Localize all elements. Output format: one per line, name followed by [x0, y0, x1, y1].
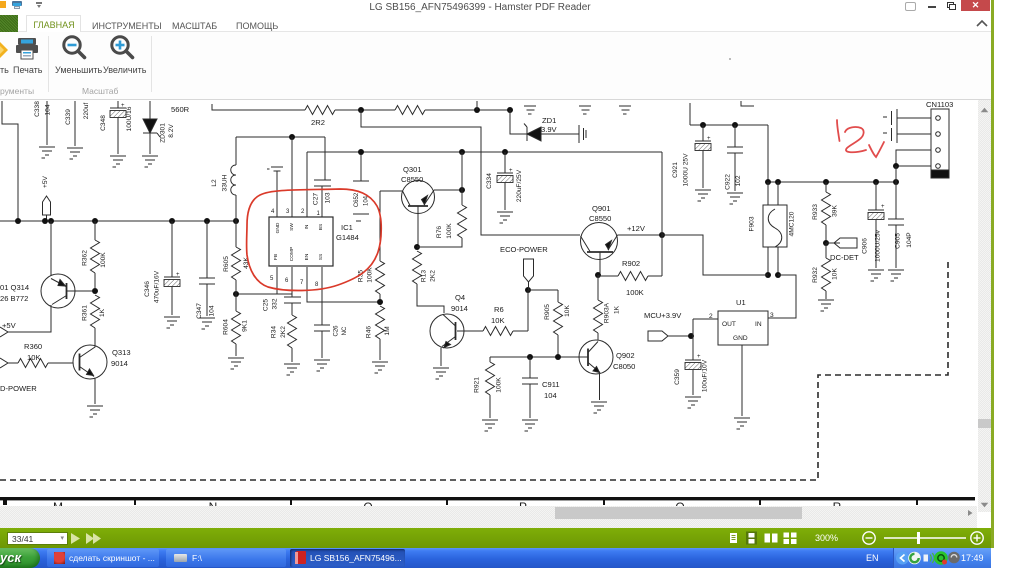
svg-text:Q4: Q4: [455, 293, 465, 302]
svg-text:26 B772: 26 B772: [0, 294, 28, 303]
svg-text:104: 104: [45, 104, 52, 115]
capacitor C338: [34, 101, 55, 158]
svg-text:10K: 10K: [27, 353, 41, 362]
svg-text:ECO-POWER: ECO-POWER: [500, 245, 548, 254]
svg-text:2: 2: [301, 209, 305, 215]
clipped cap mark a: [524, 106, 536, 114]
svg-text:R34: R34: [271, 326, 278, 338]
svg-text:R903A: R903A: [604, 302, 611, 323]
resistor R46: [366, 306, 392, 373]
wire FB to R605: [236, 293, 292, 295]
svg-text:SS: SS: [318, 254, 324, 260]
node +5V plug: [42, 175, 51, 221]
svg-text:IC1: IC1: [341, 223, 353, 232]
svg-text:GND: GND: [733, 335, 748, 342]
wire F903 to U1 IN: [768, 275, 796, 318]
svg-text:100K: 100K: [446, 223, 453, 239]
ruler line: [0, 497, 975, 505]
svg-text:NC: NC: [342, 326, 348, 335]
svg-text:R604: R604: [223, 319, 230, 335]
wire pin5 FB: [276, 267, 278, 294]
svg-text:4: 4: [271, 209, 275, 215]
svg-text:102: 102: [735, 175, 742, 186]
svg-text:8: 8: [315, 282, 319, 288]
capacitor C921: [672, 125, 711, 201]
node ZD1 tap: [507, 107, 513, 113]
wire left edge feed: [2, 101, 18, 221]
resistor R6: [483, 305, 528, 336]
svg-text:Q301: Q301: [403, 165, 422, 174]
svg-text:1M: 1M: [384, 326, 391, 335]
svg-text:104: 104: [209, 305, 216, 316]
svg-text:C906: C906: [862, 238, 869, 254]
resistor 2R2: [305, 106, 335, 128]
svg-text:ZD1: ZD1: [542, 116, 556, 125]
node F903 bottom right: [775, 272, 781, 278]
wire +12V vertical: [661, 152, 663, 276]
resistor R76: [417, 152, 467, 247]
svg-text:C347: C347: [196, 303, 203, 319]
op-amp IC1 G1484 box: [269, 217, 359, 266]
svg-text:C652: C652: [354, 192, 360, 207]
ground ZD301: [142, 156, 158, 167]
wire F903 feed: [767, 125, 769, 182]
capacitor C347: [196, 221, 216, 329]
cut-off left button fragment: [0, 40, 10, 60]
svg-text:D-POWER: D-POWER: [0, 384, 37, 393]
resistor R360: [8, 342, 73, 368]
svg-text:GND: GND: [275, 222, 281, 233]
node +12V junction: [659, 232, 665, 238]
capacitor C911: [522, 357, 560, 431]
start button: [0, 548, 40, 568]
resistor R903A: [594, 275, 621, 340]
svg-text:L2: L2: [211, 179, 218, 187]
port +5V input: [0, 321, 17, 337]
capacitor C27: [313, 137, 332, 217]
task 3 active: [290, 549, 405, 567]
svg-text:R902: R902: [622, 259, 640, 268]
resistor R34: [271, 303, 301, 375]
capacitor pin4 bypass: [267, 167, 283, 217]
svg-text:100K: 100K: [496, 377, 503, 393]
capacitor C922: [725, 125, 744, 204]
collapse chevron: [975, 18, 989, 29]
node F903 bottom left: [765, 272, 771, 278]
svg-text:9014: 9014: [111, 359, 128, 368]
inductor L2: [211, 137, 236, 221]
capacitor C348: [100, 101, 133, 167]
svg-text:9K1: 9K1: [242, 320, 249, 332]
dashed boundary: [0, 258, 948, 480]
wire main rail y152: [307, 149, 662, 155]
svg-text:G1484: G1484: [336, 233, 359, 242]
svg-text:39K: 39K: [832, 205, 839, 217]
svg-text:C8550: C8550: [401, 175, 423, 184]
connector CN1103: [926, 100, 953, 178]
svg-text:3: 3: [770, 312, 774, 319]
transistor Q901: [581, 204, 663, 273]
svg-text:+: +: [509, 168, 513, 174]
transistor Q301: [380, 165, 462, 247]
svg-text:8.2V: 8.2V: [168, 124, 175, 138]
svg-text:ZD301: ZD301: [160, 123, 167, 143]
resistor R605: [223, 221, 250, 294]
svg-text:DC-DET: DC-DET: [830, 253, 859, 262]
resistor R905: [544, 290, 571, 358]
svg-text:C338: C338: [34, 101, 41, 117]
wire +5V bus y221: [0, 218, 239, 224]
svg-text:+12V: +12V: [627, 224, 646, 233]
node Q301 emitter junction: [459, 187, 465, 193]
wire +12V to F903: [662, 235, 768, 275]
svg-text:+: +: [697, 354, 701, 360]
regulator U1: [693, 298, 774, 416]
wire top right corner: [690, 101, 754, 125]
transistor Q902: [558, 340, 635, 400]
svg-text:C25: C25: [263, 299, 270, 311]
node top rail junction: [358, 107, 364, 113]
node R605 bottom: [233, 291, 239, 297]
port LCD-POWER input: [0, 358, 37, 393]
svg-text:100U/16: 100U/16: [126, 106, 133, 131]
fuse F903: [749, 182, 796, 275]
svg-text:C27: C27: [313, 193, 320, 205]
resistor R35: [358, 191, 385, 302]
ground Q313: [87, 406, 103, 417]
svg-text:+5V: +5V: [2, 321, 17, 330]
svg-text:R933: R933: [812, 204, 819, 220]
svg-text:103: 103: [325, 192, 332, 203]
svg-text:C346: C346: [144, 281, 151, 297]
svg-text:1000U/25v: 1000U/25v: [875, 229, 882, 262]
svg-text:10K: 10K: [491, 316, 505, 325]
svg-text:IN: IN: [755, 321, 762, 328]
svg-text:6: 6: [285, 278, 289, 284]
svg-text:2K2: 2K2: [430, 270, 437, 282]
node Q301 collector junction: [414, 244, 420, 250]
svg-text:104P: 104P: [906, 232, 913, 248]
resistor R13: [413, 251, 445, 313]
svg-text:332: 332: [272, 298, 279, 309]
label +12V: [627, 224, 646, 233]
capacitor C359: [674, 319, 709, 408]
plug MCU+3.9V: [644, 311, 690, 341]
wire top rail y110: [212, 104, 510, 110]
ground Q902: [591, 402, 607, 413]
svg-text:U1: U1: [736, 298, 746, 307]
svg-text:+: +: [121, 103, 125, 109]
wire pin7 EN: [307, 267, 378, 302]
wire IC top feed y137: [236, 134, 325, 140]
svg-text:1: 1: [317, 211, 321, 217]
svg-text:CN1103: CN1103: [926, 100, 953, 109]
svg-text:2K2: 2K2: [280, 326, 287, 338]
node Q901 emitter junction: [595, 272, 601, 278]
svg-text:C8050: C8050: [613, 362, 635, 371]
wire pin3 SW: [291, 137, 293, 217]
zoom-in icon: [108, 35, 136, 61]
task 1: [47, 549, 159, 567]
svg-text:+5V: +5V: [42, 175, 49, 188]
pin numbers top: [271, 209, 321, 217]
transistor Q313: [73, 337, 131, 404]
svg-text:2R2: 2R2: [311, 118, 325, 127]
task 2: [166, 549, 286, 567]
svg-text:100uF/10V: 100uF/10V: [702, 359, 709, 392]
svg-text:+: +: [881, 204, 885, 210]
pin numbers bottom: [270, 276, 319, 288]
capacitor C25: [263, 294, 302, 311]
svg-text:220uf: 220uf: [83, 103, 90, 120]
svg-text:R76: R76: [436, 226, 443, 238]
resistor R362: [82, 221, 108, 288]
capacitor C26: [314, 267, 348, 371]
svg-text:104: 104: [544, 391, 557, 400]
ground U1: [734, 418, 750, 429]
capacitor C652: [353, 152, 370, 221]
node ECO-POWER junction: [525, 287, 531, 293]
wire base rail y357: [490, 354, 561, 360]
wire to Q901 base: [361, 110, 580, 235]
svg-text:F903: F903: [749, 216, 756, 231]
svg-text:C334: C334: [486, 173, 493, 189]
transistor Q314: [0, 221, 92, 332]
svg-text:560R: 560R: [171, 105, 190, 114]
svg-text:Q313: Q313: [112, 348, 131, 357]
svg-text:R905: R905: [544, 304, 551, 320]
wire CN pin3: [896, 150, 931, 166]
svg-text:100K: 100K: [626, 288, 644, 297]
ruler ticks: [135, 497, 917, 505]
wire rail y125: [690, 122, 768, 128]
svg-text:Q901: Q901: [592, 204, 611, 213]
resistor R932: [812, 243, 839, 311]
print icon: [15, 38, 39, 60]
svg-text:R362: R362: [82, 250, 89, 266]
svg-text:5: 5: [270, 276, 274, 282]
svg-text:R13: R13: [421, 270, 428, 282]
svg-text:9014: 9014: [451, 304, 468, 313]
svg-text:SW: SW: [289, 223, 295, 231]
capacitor C334: [486, 152, 523, 223]
resistor R902: [598, 259, 662, 297]
label 560R: [171, 105, 190, 114]
svg-text:R361: R361: [82, 305, 89, 321]
svg-text:7: 7: [300, 280, 304, 286]
ruler letters: [53, 500, 842, 514]
svg-text:R46: R46: [366, 326, 373, 338]
svg-text:R921: R921: [474, 377, 481, 393]
svg-text:R360: R360: [24, 342, 42, 351]
plug ECO-POWER: [500, 245, 548, 290]
svg-text:1K: 1K: [99, 308, 106, 317]
capacitor C346: [144, 221, 180, 328]
svg-text:IN: IN: [304, 224, 310, 229]
svg-text:Q902: Q902: [616, 351, 635, 360]
svg-text:10K: 10K: [564, 305, 571, 317]
transistor Q4 9014: [430, 293, 483, 366]
capacitor ZD1 snub: [579, 125, 586, 143]
node U1 OUT junction: [688, 333, 694, 339]
svg-text:C8550: C8550: [589, 214, 611, 223]
svg-text:+: +: [707, 136, 711, 142]
svg-text:OUT: OUT: [722, 321, 736, 328]
svg-text:3.9V: 3.9V: [541, 125, 558, 134]
resistor top unlabeled: [395, 106, 425, 115]
capacitor C905: [888, 182, 913, 281]
svg-text:470uF/16V: 470uF/16V: [154, 270, 161, 303]
svg-text:220uF/25V: 220uF/25V: [516, 169, 523, 202]
zener ZD1: [510, 110, 579, 141]
node EN junction: [377, 299, 383, 305]
svg-text:+: +: [176, 272, 180, 278]
resistor R921: [474, 357, 503, 431]
svg-text:3: 3: [286, 209, 290, 215]
svg-text:01 Q314: 01 Q314: [0, 283, 29, 292]
svg-text:C922: C922: [725, 174, 732, 190]
zener ZD301: [143, 101, 175, 154]
svg-text:33UH: 33UH: [222, 174, 229, 191]
svg-text:R6: R6: [494, 305, 504, 314]
resistor R933: [812, 182, 839, 243]
capacitor C906: [862, 182, 886, 281]
svg-text:C359: C359: [674, 369, 681, 385]
tray: [893, 548, 991, 568]
page view icons: [726, 531, 802, 545]
wire R6 up: [527, 290, 529, 331]
svg-text:C26: C26: [334, 325, 340, 337]
svg-text:1K: 1K: [614, 305, 621, 314]
wire bus y182: [765, 179, 899, 185]
svg-text:EN: EN: [304, 253, 310, 260]
wire pin2 IN: [306, 152, 308, 217]
svg-text:C339: C339: [65, 109, 72, 125]
plug DC-DET: [826, 238, 859, 262]
node top rail tap: [474, 101, 480, 113]
svg-text:COMP: COMP: [289, 247, 295, 261]
svg-text:C905: C905: [895, 233, 902, 249]
svg-text:R932: R932: [812, 267, 819, 283]
svg-text:100K: 100K: [100, 252, 107, 268]
clipped cap mark b: [579, 106, 591, 114]
capacitor CN pin1: [883, 109, 931, 127]
resistor R604: [223, 294, 249, 369]
svg-text:4MC120: 4MC120: [789, 211, 796, 236]
svg-text:C911: C911: [542, 380, 560, 389]
svg-text:FB: FB: [273, 254, 279, 260]
red 12v annotation: [837, 120, 884, 157]
capacitor C339: [65, 101, 90, 159]
wire pin6 COMP: [291, 267, 293, 294]
zoom-out icon: [60, 35, 88, 61]
svg-text:1000U 25V: 1000U 25V: [683, 153, 690, 187]
capacitor CN pin2: [883, 127, 931, 143]
svg-text:BS: BS: [318, 224, 324, 230]
node Q314 base junction: [92, 288, 98, 294]
ground Q4: [433, 368, 449, 379]
clipped cap mark c: [619, 106, 631, 114]
window controls: [905, 2, 916, 11]
node DC-DET junction: [823, 240, 829, 246]
red circle around IC1: [247, 189, 382, 291]
resistor R361: [82, 295, 107, 337]
svg-text:C348: C348: [100, 115, 107, 131]
svg-text:R605: R605: [223, 256, 230, 272]
wire CN pin4: [893, 163, 931, 182]
svg-text:C921: C921: [672, 162, 679, 178]
svg-text:MCU+3.9V: MCU+3.9V: [644, 311, 682, 320]
wire ECO to R905: [528, 289, 558, 291]
svg-text:10K: 10K: [832, 268, 839, 280]
